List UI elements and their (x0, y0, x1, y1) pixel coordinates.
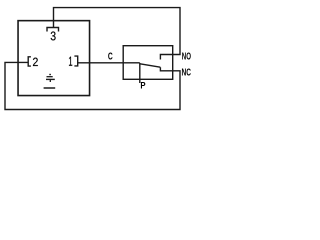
svg-text:NC: NC (182, 68, 192, 79)
svg-text:NO: NO (182, 52, 191, 63)
svg-text:P: P (140, 81, 145, 91)
svg-text:C: C (108, 52, 113, 63)
